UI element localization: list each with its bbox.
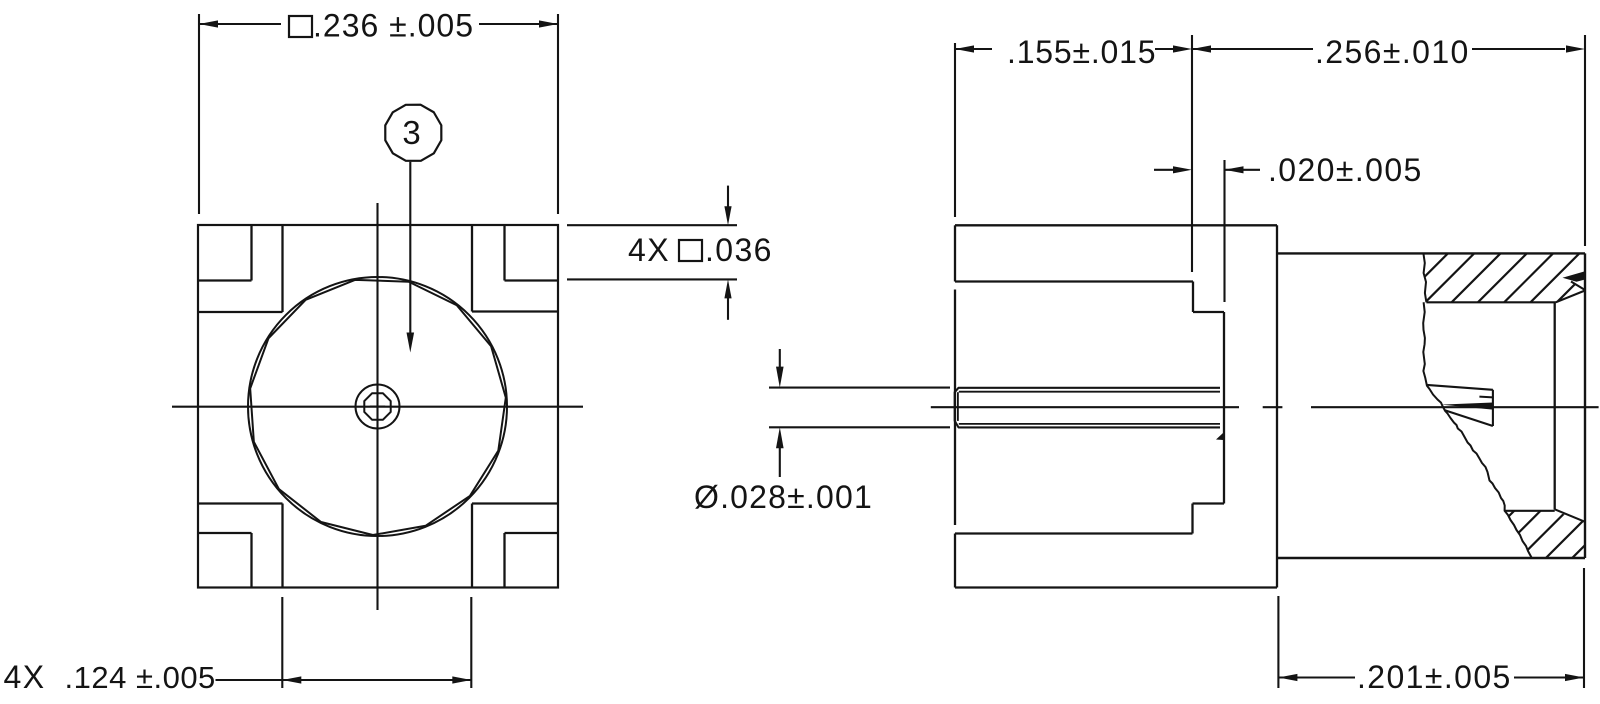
svg-text:.201±.005: .201±.005 [1357,659,1512,695]
svg-text:.124 ±.005: .124 ±.005 [65,660,216,695]
svg-text:.236 ±.005: .236 ±.005 [313,8,474,44]
svg-text:4X: 4X [628,232,670,268]
svg-text:4X: 4X [4,659,46,695]
svg-text:Ø.028±.001: Ø.028±.001 [694,479,873,515]
svg-text:.256±.010: .256±.010 [1315,34,1470,70]
svg-text:.036: .036 [705,232,773,268]
svg-text:.020±.005: .020±.005 [1268,152,1423,188]
svg-text:.155±.015: .155±.015 [1007,34,1156,70]
svg-text:3: 3 [402,114,422,151]
